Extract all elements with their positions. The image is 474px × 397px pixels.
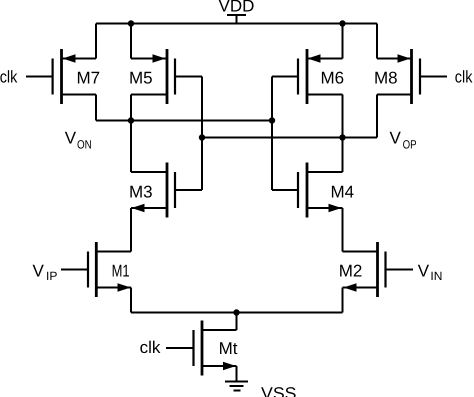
label V_IN [418, 261, 443, 283]
wire: M5 source to rail [130, 24, 132, 59]
wire: M4 source down to M2 drain [342, 208, 344, 252]
wire: M6 drain down to V_OP [342, 95, 344, 138]
wire: M4 drain up to V_OP [342, 138, 344, 173]
transistor M5 (PMOS) [129, 49, 202, 104]
svg-text:M7: M7 [77, 68, 101, 87]
svg-text:clk: clk [0, 68, 18, 87]
svg-text:M5: M5 [129, 68, 153, 87]
transistor M2 (NMOS) [339, 242, 413, 297]
node: junction rail/M6 [339, 20, 345, 26]
wire: cross-couple right vertical (M6/M4 gates to V_ON) [271, 77, 273, 191]
svg-text:OP: OP [403, 137, 417, 151]
node: junction V_OP/M6/M4 [339, 134, 345, 140]
label V_ON [65, 129, 92, 152]
svg-text:clk: clk [140, 338, 161, 357]
svg-text:V: V [390, 129, 402, 148]
node: junction V_ON/cross-couple right [269, 117, 275, 123]
svg-text:Mt: Mt [219, 339, 238, 358]
svg-text:clk: clk [455, 68, 473, 87]
svg-text:V: V [418, 261, 430, 280]
wire: M6 source to rail [342, 24, 344, 59]
svg-text:M6: M6 [321, 68, 345, 87]
wire: cross-couple left vertical (M5/M3 gates to V_OP) [201, 77, 203, 191]
wire: V_ON horizontal [96, 120, 272, 122]
wire: M2 source down to tail [342, 288, 344, 313]
wire: V_OP horizontal [202, 137, 377, 139]
node: junction V_ON/M5/M3 [128, 117, 134, 123]
transistor Mt (NMOS tail) [166, 321, 238, 376]
node: junction rail/M5 [128, 20, 134, 26]
wire: Mt source down to ground [236, 366, 238, 382]
svg-text:IP: IP [46, 269, 57, 283]
transistor M8 (PMOS) [374, 49, 447, 104]
svg-text:M1: M1 [112, 261, 130, 280]
wire: M3 source down to M1 drain [130, 208, 132, 252]
wire: M3 drain up to V_ON [130, 121, 132, 173]
svg-text:VDD: VDD [219, 0, 255, 16]
label V_IP [33, 261, 58, 283]
svg-text:ON: ON [77, 137, 92, 151]
wire: Mt drain up to tail [236, 313, 238, 331]
wire: M7 source to rail [95, 24, 97, 59]
transistor M1 (NMOS) [61, 242, 131, 297]
label V_OP [390, 129, 417, 152]
wire: M8 source to rail [376, 24, 378, 59]
wire: V_OP up to M8 drain [376, 95, 378, 138]
svg-text:IN: IN [430, 269, 442, 283]
wire: M1 source down to tail [130, 288, 132, 313]
transistor M3 (NMOS) [129, 163, 202, 218]
VDD supply symbol [227, 15, 246, 24]
svg-text:M8: M8 [374, 68, 398, 87]
wire: VDD top rail [96, 23, 377, 25]
svg-text:V: V [33, 261, 45, 280]
transistor M6 (PMOS) [272, 49, 344, 104]
node: junction V_OP/cross-couple left [199, 134, 205, 140]
transistor M4 (NMOS) [272, 163, 354, 218]
svg-text:VSS: VSS [261, 384, 297, 397]
ground symbol (VSS) [225, 382, 248, 391]
wire: tail horizontal [131, 312, 343, 314]
svg-text:M4: M4 [331, 182, 355, 201]
svg-text:M2: M2 [339, 261, 363, 280]
wire: M5 drain down to V_ON [130, 95, 132, 121]
node: junction tail/Mt [233, 309, 239, 315]
transistor M7 (PMOS) [26, 49, 100, 104]
wire: M7 drain down to V_ON [95, 95, 97, 121]
svg-text:M3: M3 [129, 182, 153, 201]
svg-text:V: V [65, 129, 77, 148]
